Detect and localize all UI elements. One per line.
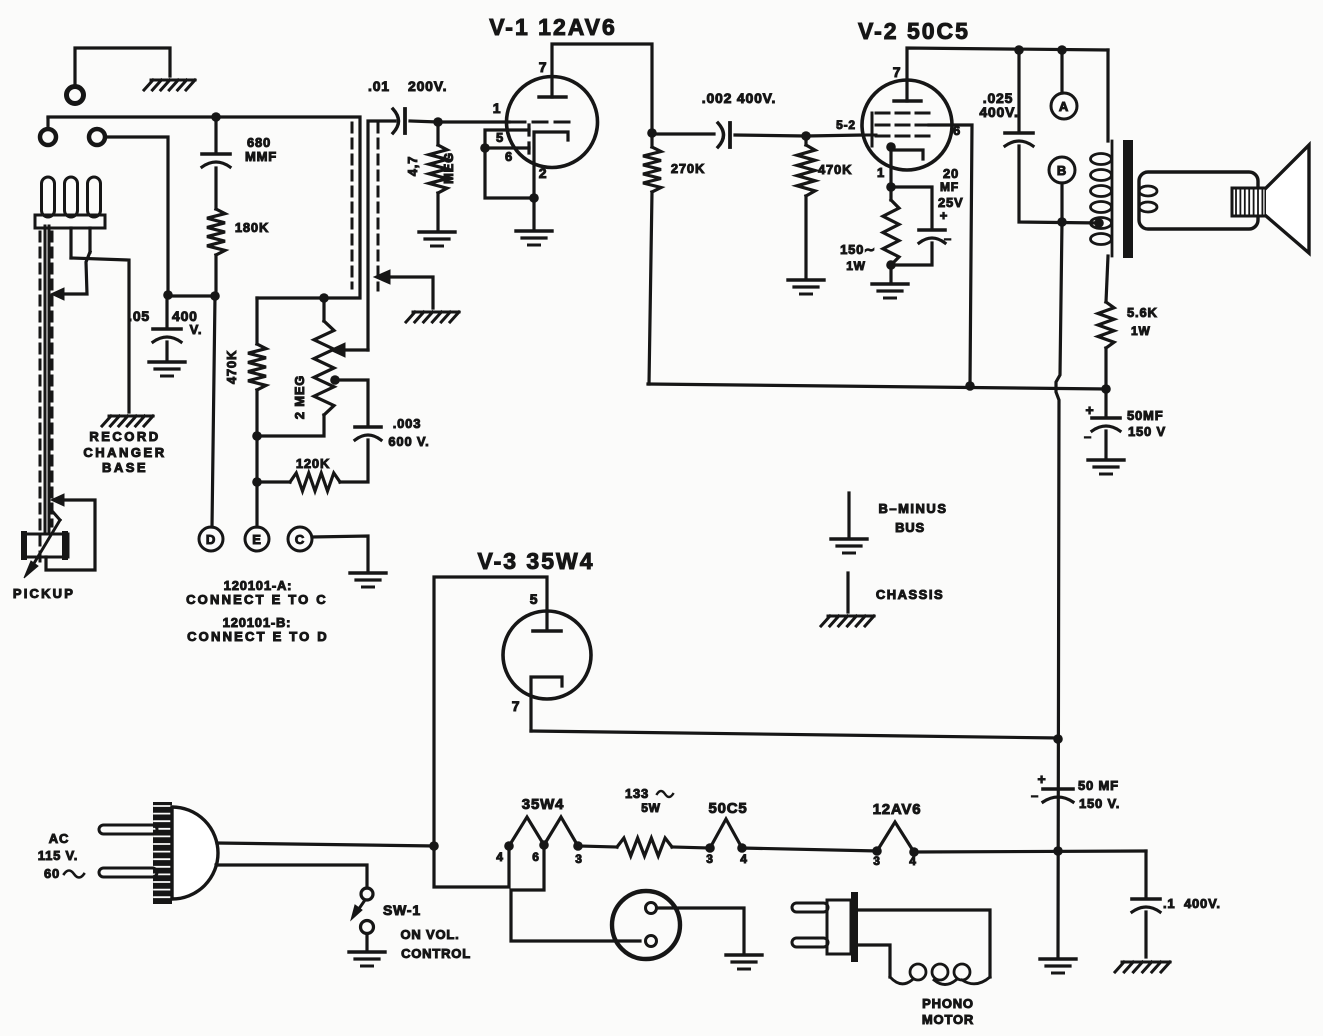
svg-text:4: 4 <box>740 852 747 866</box>
svg-text:V-3 35W4: V-3 35W4 <box>478 548 595 574</box>
svg-text:1: 1 <box>877 165 885 180</box>
svg-text:.002 400V.: .002 400V. <box>702 90 776 106</box>
svg-text:CHANGER: CHANGER <box>83 445 166 460</box>
svg-text:–: – <box>1084 429 1092 444</box>
svg-text:5.6K: 5.6K <box>1127 305 1158 320</box>
svg-text:B: B <box>1057 163 1067 178</box>
svg-text:3: 3 <box>575 852 582 866</box>
svg-text:.05: .05 <box>128 308 150 324</box>
svg-text:6: 6 <box>505 149 513 164</box>
svg-text:MMF: MMF <box>245 149 277 164</box>
svg-text:SW-1: SW-1 <box>383 902 421 918</box>
svg-text:35W4: 35W4 <box>522 796 564 813</box>
svg-text:–: – <box>944 231 952 246</box>
svg-text:50C5: 50C5 <box>708 800 747 817</box>
svg-text:MOTOR: MOTOR <box>922 1012 974 1027</box>
svg-text:V-2 50C5: V-2 50C5 <box>858 18 970 44</box>
svg-text:470K: 470K <box>818 162 852 177</box>
svg-text:7: 7 <box>893 64 902 80</box>
svg-text:V-1 12AV6: V-1 12AV6 <box>489 14 617 40</box>
svg-text:4: 4 <box>909 854 916 868</box>
svg-text:150 V: 150 V <box>1128 424 1166 439</box>
svg-text:.003: .003 <box>393 416 422 431</box>
svg-text:AC: AC <box>49 831 69 846</box>
svg-text:150∼: 150∼ <box>840 242 876 257</box>
svg-text:.01: .01 <box>368 78 390 94</box>
svg-text:20: 20 <box>943 166 959 181</box>
svg-text:180K: 180K <box>235 220 269 235</box>
svg-text:133: 133 <box>625 786 649 801</box>
svg-text:470K: 470K <box>224 350 239 384</box>
svg-text:ON VOL.: ON VOL. <box>400 927 459 942</box>
svg-text:400V.: 400V. <box>1184 896 1221 911</box>
svg-text:50 MF: 50 MF <box>1078 778 1119 793</box>
svg-text:50MF: 50MF <box>1127 408 1163 423</box>
svg-text:B–MINUS: B–MINUS <box>878 501 947 516</box>
svg-text:MF: MF <box>940 180 959 194</box>
svg-text:4: 4 <box>496 850 503 864</box>
svg-text:120101-A:: 120101-A: <box>224 578 293 593</box>
svg-text:C: C <box>295 532 305 547</box>
svg-text:CONNECT E TO C: CONNECT E TO C <box>186 592 328 607</box>
svg-text:5: 5 <box>496 130 504 145</box>
svg-text:MEG: MEG <box>441 152 456 184</box>
svg-text:BASE: BASE <box>102 460 148 475</box>
svg-text:+: + <box>1038 771 1047 787</box>
svg-text:6: 6 <box>953 123 961 138</box>
svg-text:4,7: 4,7 <box>405 156 420 176</box>
svg-text:600 V.: 600 V. <box>388 434 429 449</box>
svg-text:7: 7 <box>539 59 548 75</box>
svg-text:270K: 270K <box>671 161 705 176</box>
svg-text:A: A <box>1059 99 1069 114</box>
svg-text:120K: 120K <box>296 456 330 471</box>
svg-text:115 V.: 115 V. <box>38 848 78 863</box>
svg-text:6: 6 <box>532 850 539 864</box>
svg-text:5W: 5W <box>641 801 661 815</box>
svg-text:1W: 1W <box>1131 324 1151 338</box>
svg-text:150 V.: 150 V. <box>1079 796 1120 811</box>
svg-text:120101-B:: 120101-B: <box>223 615 292 630</box>
svg-text:60: 60 <box>44 866 60 881</box>
svg-text:.1: .1 <box>1163 896 1175 911</box>
svg-text:200V.: 200V. <box>408 78 447 94</box>
svg-text:CHASSIS: CHASSIS <box>876 587 944 602</box>
svg-text:D: D <box>206 532 216 547</box>
svg-text:5: 5 <box>530 591 539 607</box>
svg-text:2 MEG: 2 MEG <box>292 375 307 419</box>
svg-text:RECORD: RECORD <box>89 429 160 444</box>
svg-text:3: 3 <box>706 852 713 866</box>
svg-text:5-2: 5-2 <box>836 118 856 132</box>
svg-text:1W: 1W <box>846 259 866 273</box>
svg-text:E: E <box>252 532 261 547</box>
svg-text:400V.: 400V. <box>979 104 1018 120</box>
svg-text:680: 680 <box>247 135 271 150</box>
svg-text:BUS: BUS <box>895 520 925 535</box>
svg-text:PICKUP: PICKUP <box>13 586 75 601</box>
svg-text:CONTROL: CONTROL <box>401 946 471 961</box>
svg-text:V.: V. <box>190 322 203 337</box>
svg-text:3: 3 <box>873 854 880 868</box>
svg-text:1: 1 <box>493 100 502 116</box>
svg-text:+: + <box>940 208 948 223</box>
svg-text:+: + <box>1086 402 1095 418</box>
svg-text:12AV6: 12AV6 <box>873 801 922 818</box>
svg-text:CONNECT E TO D: CONNECT E TO D <box>187 629 329 644</box>
svg-text:2: 2 <box>539 165 548 181</box>
svg-text:7: 7 <box>512 698 521 714</box>
svg-text:–: – <box>1031 788 1039 803</box>
svg-text:PHONO: PHONO <box>922 996 974 1011</box>
